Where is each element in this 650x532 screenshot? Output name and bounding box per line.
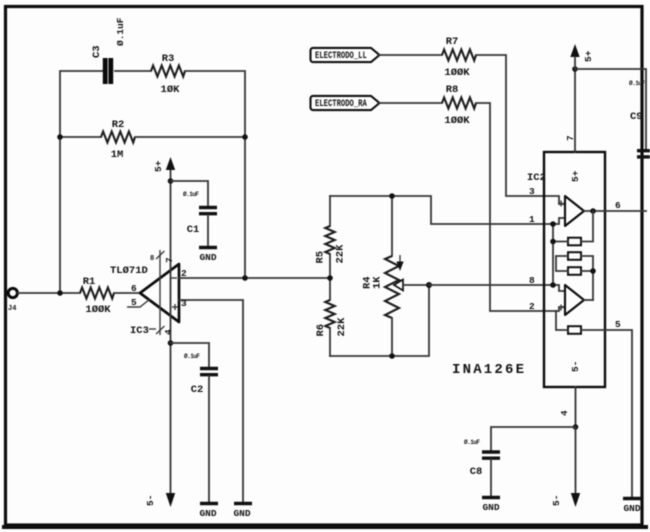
svg-text:GND: GND — [233, 508, 250, 519]
svg-text:C8: C8 — [470, 466, 483, 478]
svg-text:R1: R1 — [83, 276, 96, 288]
svg-text:R5: R5 — [315, 251, 327, 264]
svg-text:Ø.1uF: Ø.1uF — [629, 80, 645, 87]
svg-text:Ø.1uF: Ø.1uF — [115, 17, 126, 46]
svg-text:2: 2 — [181, 268, 187, 279]
svg-text:ELECTRODO_RA: ELECTRODO_RA — [315, 98, 367, 109]
svg-text:5-: 5- — [551, 495, 562, 506]
svg-text:GND: GND — [482, 502, 499, 513]
svg-text:IC3: IC3 — [130, 325, 149, 337]
svg-text:GND: GND — [623, 503, 640, 514]
svg-text:R2: R2 — [112, 119, 125, 131]
svg-text:GND: GND — [199, 508, 216, 519]
svg-text:7: 7 — [164, 257, 175, 263]
svg-text:R6: R6 — [315, 324, 327, 337]
svg-text:22K: 22K — [335, 244, 347, 264]
svg-text:1K: 1K — [372, 276, 384, 289]
svg-text:C9: C9 — [630, 111, 643, 123]
svg-text:C3: C3 — [91, 45, 103, 58]
svg-text:7: 7 — [565, 135, 576, 141]
svg-text:TLØ71D: TLØ71D — [110, 265, 148, 277]
svg-text:6: 6 — [131, 283, 137, 294]
svg-text:1ØØK: 1ØØK — [444, 115, 470, 127]
svg-text:ELECTRODO_LL: ELECTRODO_LL — [315, 50, 367, 61]
svg-text:1ØØK: 1ØØK — [85, 304, 111, 316]
svg-text:R3: R3 — [162, 53, 175, 65]
svg-text:J4: J4 — [8, 305, 16, 313]
svg-text:Ø.1uF: Ø.1uF — [184, 353, 200, 360]
svg-text:1: 1 — [529, 214, 535, 225]
svg-text:5+: 5+ — [153, 160, 164, 172]
svg-text:1ØK: 1ØK — [161, 84, 181, 96]
svg-text:1M: 1M — [111, 149, 124, 161]
svg-text:8: 8 — [150, 255, 154, 263]
svg-text:R8: R8 — [446, 84, 459, 96]
svg-text:1ØØK: 1ØØK — [444, 67, 470, 79]
svg-text:Ø.1uF: Ø.1uF — [183, 191, 199, 198]
svg-text:5+: 5+ — [570, 170, 581, 182]
svg-text:R7: R7 — [446, 36, 459, 48]
svg-text:8: 8 — [529, 275, 535, 286]
svg-text:C1: C1 — [187, 224, 200, 236]
svg-text:4: 4 — [163, 329, 174, 335]
svg-text:22K: 22K — [336, 317, 348, 337]
svg-text:5: 5 — [131, 297, 137, 308]
svg-text:5-: 5- — [145, 495, 156, 506]
svg-text:INA126E: INA126E — [452, 362, 526, 378]
svg-text:3: 3 — [181, 298, 187, 309]
svg-text:6: 6 — [615, 200, 621, 211]
svg-text:GND: GND — [199, 252, 216, 263]
svg-text:C2: C2 — [191, 384, 204, 396]
svg-text:3: 3 — [529, 186, 535, 197]
svg-text:4: 4 — [559, 410, 570, 416]
svg-text:IC2: IC2 — [527, 172, 546, 184]
svg-text:5-: 5- — [570, 361, 581, 372]
svg-text:5: 5 — [615, 319, 621, 330]
svg-text:2: 2 — [529, 301, 535, 312]
svg-text:5+: 5+ — [583, 50, 594, 62]
svg-text:Ø.1uF: Ø.1uF — [464, 439, 480, 446]
